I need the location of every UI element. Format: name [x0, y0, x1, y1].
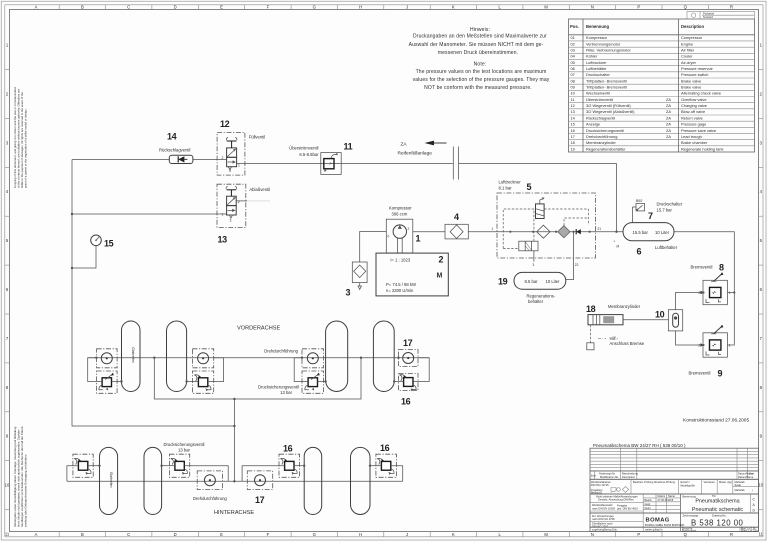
svg-text:15.5 bar: 15.5 bar — [633, 230, 649, 235]
svg-text:11: 11 — [344, 142, 353, 152]
rear pressure save valve R3 — [242, 454, 305, 481]
svg-text:Wolf: Wolf — [668, 498, 673, 502]
svg-text:11: 11 — [571, 97, 575, 102]
svg-text:Scale: Scale — [735, 483, 742, 487]
svg-text:Trittplatten- Bremsventil: Trittplatten- Bremsventil — [586, 78, 627, 83]
svg-text:Konstruktionsstand 27.06.2005: Konstruktionsstand 27.06.2005 — [683, 418, 749, 424]
svg-text:Überströmventil: Überströmventil — [289, 146, 318, 151]
svg-text:Description: Description — [681, 24, 704, 29]
parts list table — [569, 19, 755, 152]
svg-text:P: P — [637, 532, 640, 537]
svg-text:B92: B92 — [636, 199, 642, 203]
svg-text:Regenerations-: Regenerations- — [527, 294, 556, 299]
svg-text:Zeichnungsgr.: Zeichnungsgr. — [683, 514, 700, 518]
svg-text:Compressor: Compressor — [681, 35, 703, 40]
svg-text:6.5-8.5bar: 6.5-8.5bar — [299, 152, 319, 157]
svg-text:11: 11 — [5, 532, 10, 537]
svg-text:Maßstab: Maßstab — [735, 488, 746, 492]
svg-text:Titl.: Titl. — [712, 494, 716, 498]
svg-text:Glattreifen: Glattreifen — [109, 472, 113, 488]
svg-text:13: 13 — [218, 235, 228, 245]
rear tire 1 — [100, 447, 118, 514]
svg-text:18: 18 — [586, 304, 596, 314]
3/2 valve 13 (Ablaßventil) — [217, 184, 270, 244]
grid tick marks top — [59, 5, 708, 10]
svg-text:3: 3 — [533, 263, 535, 267]
svg-text:Regenerationsbehälter: Regenerationsbehälter — [586, 146, 626, 151]
svg-text:N: N — [591, 5, 594, 10]
wire dryer to reservoir — [596, 231, 624, 233]
svg-text:P: P — [637, 5, 640, 10]
svg-text:Filter, Verbrennungsmotor: Filter, Verbrennungsmotor — [586, 48, 631, 53]
engine box 2 (M) — [376, 253, 448, 296]
front gauge assembly 3 — [302, 349, 324, 368]
svg-text:Wechselventil: Wechselventil — [586, 91, 610, 96]
pressure gauge 15 (Anzeige) — [72, 235, 114, 268]
svg-text:K: K — [452, 532, 455, 537]
front gauge assembly 2 — [192, 349, 213, 368]
node junction left/gauge15 stub — [71, 267, 73, 269]
node junction left/valve13 wire — [71, 213, 73, 215]
svg-text:3/2 Wegeventil (Ablaßventil): 3/2 Wegeventil (Ablaßventil) — [586, 109, 635, 114]
svg-text:Drehdurchführung: Drehdurchführung — [193, 496, 227, 501]
svg-text:Testcard: Testcard — [703, 15, 713, 19]
note text german/english — [409, 27, 550, 91]
rear gauge A (Drehdurchführung) — [193, 471, 227, 501]
rear pressure save valve R4 — [369, 454, 403, 481]
svg-text:HINTERACHSE: HINTERACHSE — [214, 510, 254, 516]
svg-text:Description: Description — [622, 475, 636, 479]
svg-text:Bearbeit.-Prüfung Abnahme-P: Bearbeit.-Prüfung Abnahme-Prüfung — [633, 480, 676, 484]
svg-text:13 bar: 13 bar — [280, 390, 292, 395]
svg-text:Drawing-No.: Drawing-No. — [712, 514, 727, 518]
svg-text:07: 07 — [571, 72, 575, 77]
svg-text:Datum: Datum — [658, 494, 666, 498]
svg-text:306 ccm: 306 ccm — [392, 212, 408, 217]
svg-text:P= 74.5 / 98 kW: P= 74.5 / 98 kW — [386, 282, 416, 287]
svg-text:values for the selection of th: values for the selection of the pressure… — [413, 77, 550, 83]
svg-text:10: 10 — [758, 483, 763, 488]
svg-text:Cooler: Cooler — [681, 54, 693, 59]
svg-text:2: 2 — [698, 344, 700, 348]
svg-text:VORDERACHSE: VORDERACHSE — [237, 326, 280, 332]
svg-text:E: E — [220, 5, 223, 10]
svg-text:4: 4 — [454, 212, 459, 222]
coupling (line disconnect) — [452, 147, 454, 180]
svg-text:Overflow valve: Overflow valve — [681, 97, 707, 102]
svg-text:Lufttrockner: Lufttrockner — [586, 60, 607, 65]
svg-text:Pneumatikschema BW 24/27 RH (: Pneumatikschema BW 24/27 RH ( 538 00/10 … — [593, 443, 686, 448]
cooler/filter 4 — [445, 212, 468, 239]
shuttle valve 10 (Wechselventil) — [655, 310, 683, 331]
svg-text:Auswahl der Manometer. Sie müs: Auswahl der Manometer. Sie müssen NICHT … — [409, 42, 544, 48]
wire filter 4 to air dryer — [468, 231, 497, 233]
svg-text:Norm: Norm — [645, 506, 651, 510]
svg-text:Note:: Note: — [474, 62, 487, 68]
svg-text:Pos.: Pos. — [570, 24, 579, 29]
wire: top line to fill valve — [72, 159, 169, 161]
svg-text:Modellgröße: Modellgröße — [681, 483, 696, 487]
svg-text:A: A — [35, 5, 38, 10]
svg-text:BOMAG: BOMAG — [646, 518, 670, 524]
svg-text:9: 9 — [718, 369, 723, 379]
front tire 1 — [122, 321, 141, 392]
front tire 3 — [326, 321, 348, 392]
svg-text:08: 08 — [571, 78, 575, 83]
svg-text:8.5 bar: 8.5 bar — [525, 279, 539, 284]
rear tire 4 — [351, 447, 371, 514]
grid tick marks bottom — [59, 532, 708, 537]
svg-text:The pressure values on the tes: The pressure values on the test location… — [416, 69, 547, 75]
svg-text:B: B — [81, 5, 84, 10]
svg-text:ZA: ZA — [666, 103, 671, 108]
svg-text:C: C — [127, 5, 130, 10]
svg-text:NOT be conform with the measur: NOT be conform with the measured pressur… — [424, 85, 532, 91]
air reservoir 6 (Luftbehälter) — [623, 223, 678, 257]
svg-text:Regenerate holding tank: Regenerate holding tank — [681, 146, 723, 151]
svg-text:3: 3 — [230, 219, 232, 223]
svg-text:Reifenfüllanlage: Reifenfüllanlage — [398, 151, 433, 157]
svg-text:Benennung: Benennung — [586, 24, 609, 29]
svg-text:11: 11 — [759, 532, 764, 537]
svg-text:Zust.: Zust. — [591, 474, 597, 478]
svg-text:09: 09 — [571, 85, 575, 90]
svg-text:Gepr.: Gepr. — [645, 502, 652, 506]
copyright note german (rotated) — [13, 426, 28, 527]
svg-text:6: 6 — [637, 247, 642, 257]
svg-text:Drehdurchführung: Drehdurchführung — [586, 134, 617, 139]
svg-text:16: 16 — [401, 397, 411, 407]
svg-text:06: 06 — [571, 66, 575, 71]
svg-text:Alternating check valve: Alternating check valve — [681, 91, 721, 96]
svg-text:R: R — [730, 5, 733, 10]
svg-text:ZA: ZA — [666, 134, 671, 139]
svg-text:erteilung oder Gebrauchsmuster: erteilung oder Gebrauchsmuster-Eintragun… — [24, 454, 28, 527]
compressor 1 — [386, 206, 420, 254]
svg-text:Membranzylinder: Membranzylinder — [608, 304, 641, 309]
svg-text:Luftbehälter: Luftbehälter — [655, 245, 678, 250]
3/2 valve 12 (Füllventil) — [217, 119, 265, 175]
svg-text:0: 0 — [388, 235, 390, 239]
svg-text:10: 10 — [655, 310, 665, 320]
svg-text:2: 2 — [222, 156, 224, 160]
svg-text:1: 1 — [729, 291, 731, 295]
air dryer 5 (Lufttrockner) enclosure — [497, 180, 601, 280]
svg-text:Pneumatic schematic: Pneumatic schematic — [692, 507, 744, 513]
svg-text:K: K — [452, 5, 455, 10]
svg-text:Anzeige: Anzeige — [586, 122, 600, 127]
svg-text:16: 16 — [283, 444, 293, 454]
svg-text:8: 8 — [719, 263, 724, 273]
svg-text:n= 2300 U/min: n= 2300 U/min — [386, 288, 414, 293]
svg-text:Drucksicherungsventil: Drucksicherungsventil — [258, 384, 299, 389]
svg-text:Drehdurchführung: Drehdurchführung — [264, 349, 298, 354]
svg-text:M: M — [617, 245, 620, 249]
svg-text:M: M — [544, 532, 548, 537]
svg-text:16: 16 — [380, 443, 390, 453]
svg-text:Brake chamber: Brake chamber — [681, 140, 708, 145]
svg-text:Air-dryer: Air-dryer — [681, 60, 697, 65]
svg-text:Return valve: Return valve — [681, 115, 703, 120]
svg-text:17: 17 — [255, 495, 265, 505]
front tire 2 — [167, 321, 187, 392]
svg-text:Prüfzettel: Prüfzettel — [703, 12, 714, 16]
svg-text:15: 15 — [104, 239, 114, 249]
svg-text:ZA: ZA — [666, 122, 671, 127]
svg-text:17: 17 — [403, 338, 413, 348]
svg-text:Druckangaben an den Meßstellen: Druckangaben an den Meßstellen sind Maxi… — [413, 33, 547, 39]
svg-text:Rückschlagventil: Rückschlagventil — [159, 147, 190, 152]
svg-text:15.7 bar: 15.7 bar — [657, 208, 673, 213]
svg-text:1: 1 — [416, 234, 421, 244]
svg-text:Brake valve: Brake valve — [681, 85, 701, 90]
svg-text:18: 18 — [571, 140, 575, 145]
svg-text:Pressure gage: Pressure gage — [681, 122, 706, 127]
svg-text:Bremsventil: Bremsventil — [689, 371, 711, 376]
svg-text:13 bar: 13 bar — [178, 447, 190, 452]
svg-text:Anschluss Bremse: Anschluss Bremse — [610, 341, 645, 346]
wire: feed down to rear — [233, 399, 235, 481]
svg-text:27.06.05: 27.06.05 — [658, 498, 669, 502]
svg-text:16: 16 — [571, 128, 575, 133]
svg-text:grant of a patent or the regis: grant of a patent or the registration of… — [24, 108, 28, 188]
svg-text:nach DIN EN 10305: nach DIN EN 10305 — [592, 506, 616, 510]
svg-text:Lufttrockner: Lufttrockner — [499, 180, 522, 185]
svg-text:05: 05 — [571, 60, 575, 65]
svg-text:Hinweis:: Hinweis: — [470, 27, 490, 33]
svg-text:3: 3 — [229, 169, 231, 173]
svg-text:B 538 120 00: B 538 120 00 — [691, 519, 744, 528]
wire: drain valve line — [72, 213, 227, 215]
svg-text:F: F — [267, 5, 270, 10]
svg-text:15: 15 — [571, 122, 575, 127]
svg-text:Membranzylinder: Membranzylinder — [586, 140, 617, 145]
rear gauge B — [247, 471, 272, 505]
svg-text:ZA: ZA — [666, 109, 671, 114]
brake chamber 18 (Membranzylinder) — [586, 304, 668, 350]
front pressure save valve assembly 4 — [393, 357, 429, 392]
svg-text:2: 2 — [238, 200, 240, 204]
front gauge assembly 4 — [399, 350, 419, 367]
check valve 14 (Rückschlagventil) — [159, 132, 193, 164]
svg-text:02: 02 — [571, 41, 575, 46]
svg-text:Überströmventil: Überströmventil — [586, 97, 613, 102]
svg-text:D: D — [174, 532, 177, 537]
svg-text:10 Liter: 10 Liter — [655, 230, 670, 235]
svg-text:Sheet 1 of 1 Sh.: Sheet 1 of 1 Sh. — [741, 529, 758, 532]
svg-text:01: 01 — [571, 35, 575, 40]
svg-text:21: 21 — [598, 227, 602, 231]
wires valves 8/9 port2 to shuttle valve — [700, 291, 704, 294]
svg-text:H: H — [359, 5, 362, 10]
svg-text:Ersetzt durch:: Ersetzt durch: — [682, 529, 697, 532]
svg-text:Air filter: Air filter — [681, 48, 695, 53]
svg-text:1: 1 — [222, 213, 224, 217]
svg-text:19: 19 — [498, 277, 508, 287]
svg-text:Brake valve: Brake valve — [681, 78, 701, 83]
svg-text:Drucksicherungsventil: Drucksicherungsventil — [586, 128, 624, 133]
svg-text:G: G — [313, 532, 316, 537]
svg-text:1: 1 — [492, 227, 494, 231]
svg-text:Ablaßventil: Ablaßventil — [249, 187, 270, 192]
wire: left vertical supply — [72, 160, 234, 427]
svg-text:Glattreifen: Glattreifen — [131, 347, 135, 363]
rear pressure save valve R1 — [67, 454, 101, 481]
copyright note english (rotated) — [13, 86, 28, 188]
svg-text:Druckschalter: Druckschalter — [586, 72, 610, 77]
title block — [590, 448, 759, 532]
svg-text:ZA: ZA — [401, 142, 408, 148]
svg-text:Rückschlagventil: Rückschlagventil — [586, 115, 615, 120]
svg-text:12: 12 — [220, 119, 230, 129]
svg-text:3/2 Wegeventil (Füllventil): 3/2 Wegeventil (Füllventil) — [586, 103, 631, 108]
rear pressure save valve R2 — [160, 454, 228, 481]
rear tire 2 — [144, 447, 162, 514]
svg-text:Charging valve: Charging valve — [681, 103, 707, 108]
svg-text:Pressure save valve: Pressure save valve — [681, 128, 716, 133]
svg-text:Pressure switch: Pressure switch — [681, 72, 708, 77]
front tire 4 — [373, 321, 394, 392]
ZA Reifenfüllanlage label + arrow — [398, 141, 447, 157]
svg-text:7: 7 — [648, 211, 653, 221]
svg-text:Lead trough: Lead trough — [681, 134, 702, 139]
svg-text:1: 1 — [729, 344, 731, 348]
svg-text:12: 12 — [571, 103, 575, 108]
svg-text:Engine: Engine — [681, 41, 693, 46]
svg-text:3: 3 — [346, 288, 351, 298]
svg-text:R: R — [730, 532, 733, 537]
svg-text:03: 03 — [571, 48, 575, 53]
grid reference letters bottom — [35, 532, 733, 537]
svg-text:Pressure reservoir: Pressure reservoir — [681, 66, 713, 71]
svg-text:weiter gültig für: weiter gültig für — [645, 528, 663, 532]
wire: fill valve to coupling and down to reservoir line — [237, 163, 453, 165]
svg-text:Name: Name — [668, 494, 675, 498]
svg-text:Modification-No.: Modification-No. — [600, 475, 619, 479]
svg-text:22: 22 — [575, 263, 579, 267]
svg-text:Trittplatten- Bremsventil: Trittplatten- Bremsventil — [586, 85, 627, 90]
svg-text:behälter: behälter — [528, 299, 544, 304]
svg-text:Drucksicherungsventil: Drucksicherungsventil — [164, 442, 205, 447]
svg-text:14: 14 — [167, 132, 177, 142]
svg-text:Verbrennungsmotor: Verbrennungsmotor — [586, 41, 621, 46]
svg-text:2: 2 — [698, 291, 700, 295]
svg-text:J: J — [406, 532, 408, 537]
regeneration tank 19 — [498, 272, 566, 304]
svg-text:Bremsventil: Bremsventil — [691, 265, 713, 270]
svg-text:Benennung: Benennung — [683, 494, 697, 498]
svg-text:C: C — [127, 532, 130, 537]
wire: front axle supply line — [88, 357, 430, 359]
svg-text:BOMAG GMBH 56154 BOPPARD: BOMAG GMBH 56154 BOPPARD — [645, 523, 684, 527]
wire: drain valve outlet stub — [236, 200, 247, 202]
svg-text:Gez.: Gez. — [749, 472, 755, 476]
svg-text:2: 2 — [439, 255, 444, 265]
air intake filter 3 — [346, 256, 368, 298]
front pressure save valve assembly 2 — [185, 358, 223, 394]
svg-text:Kompressor: Kompressor — [389, 206, 412, 211]
pressure switch 7 (Druckschalter) — [633, 199, 683, 223]
wire: rear axle supply line — [67, 480, 403, 482]
svg-text:B: B — [81, 532, 84, 537]
svg-text:gez. DIN EN 4016: gez. DIN EN 4016 — [617, 507, 638, 511]
svg-text:10 Liter: 10 Liter — [546, 279, 561, 284]
svg-text:17: 17 — [571, 134, 575, 139]
svg-text:N: N — [591, 532, 594, 537]
svg-text:M: M — [544, 5, 548, 10]
wire compressor out to filter 4 — [413, 231, 445, 233]
brake valve 9 (Bremsventil) — [689, 325, 731, 379]
svg-text:5: 5 — [527, 182, 532, 192]
svg-text:Werkstoffauswahl: Werkstoffauswahl — [592, 503, 613, 507]
svg-text:Blow-off valve: Blow-off valve — [681, 109, 705, 114]
svg-text:10: 10 — [5, 483, 10, 488]
svg-text:Füllventil: Füllventil — [249, 135, 266, 140]
svg-text:nach DIN ISO 2768: nach DIN ISO 2768 — [592, 517, 615, 521]
wire reservoir to brake valves — [674, 232, 734, 345]
wire filter3 to compressor — [360, 232, 387, 257]
svg-text:1: 1 — [238, 163, 240, 167]
svg-text:Gewicht, Abweichung DIN/Part: Gewicht, Abweichung DIN/Part — [598, 498, 634, 502]
svg-text:ZA: ZA — [666, 97, 671, 102]
svg-text:messenen Druck übereinstimmen.: messenen Druck übereinstimmen. — [438, 50, 518, 56]
svg-text:D: D — [174, 5, 177, 10]
svg-text:M: M — [437, 273, 443, 280]
brake valve 8 (Bremsventil) — [691, 263, 731, 305]
grid reference letters top — [35, 5, 733, 10]
svg-text:Druckschalter: Druckschalter — [657, 202, 683, 207]
wire: front manifold — [154, 358, 361, 399]
front pressure save valve assembly 1 — [88, 357, 123, 394]
svg-text:DIN ISO 13715: DIN ISO 13715 — [591, 483, 609, 487]
svg-text:8.1 bar: 8.1 bar — [499, 186, 513, 191]
svg-text:A: A — [35, 532, 38, 537]
svg-text:H: H — [359, 532, 362, 537]
svg-text:Bearb.: Bearb. — [645, 498, 653, 502]
svg-text:G: G — [313, 5, 316, 10]
svg-text:i= 1 : 1023: i= 1 : 1023 — [391, 258, 411, 263]
stamp box top right — [687, 12, 755, 20]
front gauge (Drehdurchführung) assembly 1 — [97, 349, 118, 368]
svg-text:19: 19 — [571, 146, 575, 151]
overflow valve 11 (Überströmventil) — [289, 142, 352, 175]
svg-text:Vertrauen: Vertrauen — [704, 480, 716, 484]
rear tire 3 — [304, 447, 322, 514]
svg-text:Kompressor: Kompressor — [586, 35, 608, 40]
svg-text:Luftbehälter: Luftbehälter — [586, 66, 607, 71]
svg-text:J: J — [406, 5, 408, 10]
svg-text:Kühler: Kühler — [586, 54, 598, 59]
front pressure save valve assembly 3 — [294, 357, 327, 394]
svg-text:Masst. (kg): Masst. (kg) — [719, 480, 732, 484]
svg-text:ZA: ZA — [666, 128, 671, 133]
svg-text:2: 2 — [408, 227, 410, 231]
svg-text:Pneumatikschema: Pneumatikschema — [695, 499, 739, 505]
svg-text:13: 13 — [571, 109, 575, 114]
svg-text:F: F — [267, 532, 270, 537]
svg-text:ZA: ZA — [666, 115, 671, 120]
svg-text:zugehörig/Bezug Dok.: zugehörig/Bezug Dok. — [592, 528, 618, 532]
svg-text:E: E — [220, 532, 223, 537]
